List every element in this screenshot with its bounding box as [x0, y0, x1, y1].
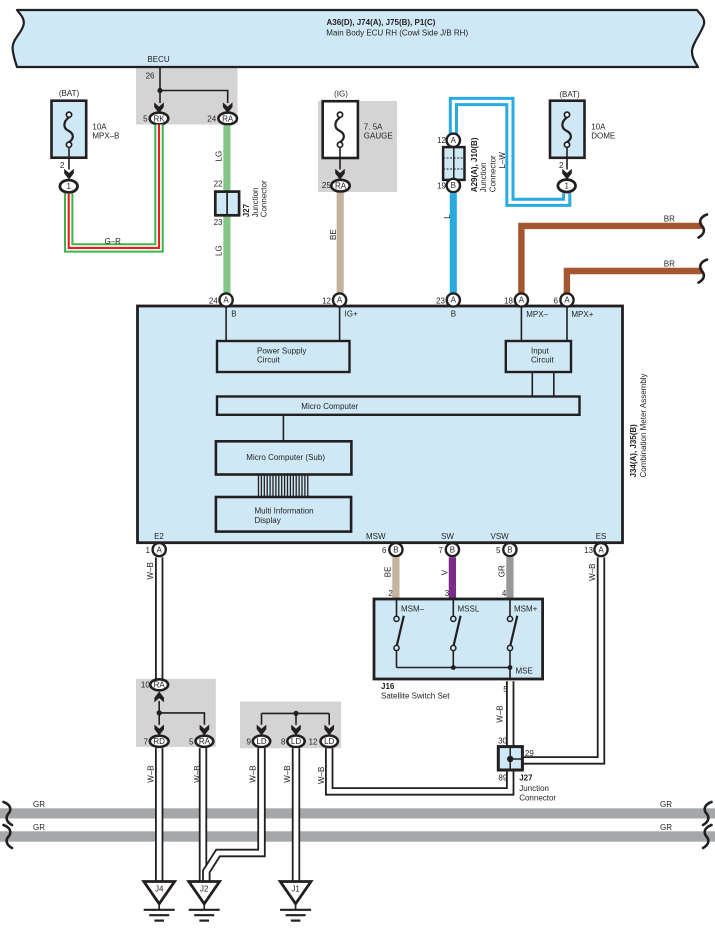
svg-text:7: 7 [144, 738, 149, 747]
svg-text:12: 12 [309, 738, 318, 747]
wires input circuit to micro computer [531, 372, 533, 397]
pin 5 B circle [503, 543, 516, 556]
break symbol bar1 right [703, 802, 712, 825]
svg-text:B: B [393, 545, 398, 554]
ground bus bar GR upper [0, 808, 715, 818]
pin 6 B circle [389, 543, 402, 556]
svg-text:7: 7 [439, 546, 444, 555]
gray shade box ground connector group left [136, 679, 216, 747]
svg-text:BE: BE [384, 567, 393, 578]
svg-text:A: A [337, 296, 343, 305]
svg-text:1: 1 [146, 546, 151, 555]
connector arrow into RK [154, 102, 164, 113]
connector arrow into 12 LD [324, 725, 334, 736]
connector arrow up from 10 RA [154, 692, 164, 703]
wire fuse DOME to pin 2 [566, 147, 568, 169]
svg-text:2: 2 [559, 161, 564, 170]
wire GR vsw to J16 [506, 557, 513, 599]
svg-text:B: B [451, 310, 456, 319]
connector LD 8 [287, 736, 304, 748]
fuse 7.5A GAUGE box [323, 101, 358, 158]
svg-text:MSM–: MSM– [401, 605, 425, 614]
svg-text:A36(D), J74(A), J75(B), P1(C): A36(D), J74(A), J75(B), P1(C) [327, 18, 436, 27]
junction dot BECU split [157, 88, 162, 93]
break symbol BR lower [699, 260, 708, 283]
svg-text:7. 5A: 7. 5A [364, 123, 383, 132]
connector RK [150, 113, 169, 125]
svg-text:(BAT): (BAT) [59, 89, 80, 98]
input circuit box [506, 341, 571, 372]
wire BR to MPX- [521, 226, 702, 294]
wire G-R from circle 1 to RK [69, 125, 159, 248]
wire pin6 to input circuit [566, 307, 568, 341]
svg-text:30: 30 [498, 736, 507, 745]
svg-text:3: 3 [445, 589, 450, 598]
svg-text:Combination Meter Assembly: Combination Meter Assembly [639, 373, 648, 477]
connector RD 7 [150, 736, 169, 747]
break symbol bar1 left [4, 802, 13, 825]
connector arrow into 1 dome [562, 169, 572, 180]
svg-text:MPX–B: MPX–B [92, 132, 119, 141]
svg-text:5: 5 [143, 115, 148, 124]
svg-text:MSM+: MSM+ [514, 605, 538, 614]
svg-text:W–B: W–B [248, 765, 257, 782]
junction connector A29 box [443, 147, 464, 180]
fuse MPX-B symbol [64, 117, 72, 142]
wire 10 RA branch [158, 701, 160, 725]
svg-text:Junction: Junction [479, 162, 488, 192]
connector RA gauge [331, 180, 349, 192]
wire fuse GAUGE to pin 25 [339, 147, 341, 169]
svg-text:A: A [451, 296, 457, 305]
connector arrow into 5 RA [200, 725, 210, 736]
svg-text:A: A [451, 136, 457, 145]
svg-text:MPX+: MPX+ [571, 310, 593, 319]
svg-text:W–B: W–B [146, 562, 155, 579]
svg-text:GR: GR [33, 823, 45, 832]
svg-text:1: 1 [66, 182, 71, 191]
connector group right: LD bus [262, 712, 330, 714]
svg-text:W–B: W–B [495, 705, 504, 722]
svg-text:(BAT): (BAT) [559, 90, 580, 99]
svg-text:RK: RK [153, 114, 165, 123]
wire BECU vertical from ribbon [159, 67, 161, 91]
svg-text:B: B [507, 545, 512, 554]
svg-text:Circuit: Circuit [531, 355, 554, 364]
svg-text:LG: LG [215, 151, 224, 162]
svg-text:RA: RA [154, 681, 166, 690]
pin 13 A circle [594, 543, 607, 556]
svg-text:B: B [451, 181, 456, 190]
connector RA 5 [196, 736, 214, 747]
satellite switch set J16 box [374, 599, 543, 679]
multi information display box [216, 497, 351, 532]
svg-text:RA: RA [335, 182, 347, 191]
svg-text:Multi Information: Multi Information [255, 507, 314, 516]
svg-text:A: A [157, 545, 163, 554]
junction connector J27 top box [215, 192, 239, 216]
svg-text:Satellite Switch Set: Satellite Switch Set [381, 692, 450, 701]
svg-text:1: 1 [564, 182, 569, 191]
connector arrow into 1 [64, 169, 74, 180]
break symbol bar2 left [4, 825, 13, 848]
ground J4 [144, 882, 175, 921]
wire LG from RA to meter pin 24 [223, 125, 230, 294]
wire BE from RA to meter pin 12 [337, 193, 344, 294]
svg-text:J4: J4 [155, 884, 164, 893]
svg-text:A: A [564, 296, 570, 305]
main body ECU ribbon [13, 10, 705, 67]
wire MSE inside J16 [509, 668, 511, 681]
svg-text:RA: RA [222, 114, 234, 123]
pin 1 A circle [153, 543, 166, 556]
svg-text:LD: LD [256, 737, 266, 746]
wire W-B 9 LD jog to ground J2 [206, 748, 261, 881]
svg-text:GR: GR [497, 565, 506, 577]
pin 12 A circle [333, 293, 346, 306]
svg-text:4: 4 [502, 589, 507, 598]
switch MSM+ [507, 600, 517, 668]
svg-text:9: 9 [246, 738, 251, 747]
wire BE msw to J16 [392, 557, 399, 599]
pin 18 A circle [515, 293, 528, 306]
fuse DOME symbol [562, 117, 570, 142]
svg-text:13: 13 [584, 546, 593, 555]
junction dot left group [157, 710, 162, 715]
micro computer sub box [216, 441, 352, 474]
pin 23 A circle [447, 293, 460, 306]
micro computer box [217, 397, 580, 415]
wire fuse to pin 2 [68, 147, 70, 169]
wire branch to 5 RA [159, 713, 204, 725]
svg-text:26: 26 [146, 72, 155, 81]
svg-text:8: 8 [281, 738, 286, 747]
svg-text:W–B: W–B [193, 765, 202, 782]
svg-text:(IG): (IG) [334, 89, 348, 98]
svg-text:10A: 10A [92, 123, 107, 132]
wire MSE bus [397, 667, 511, 669]
svg-text:DOME: DOME [591, 132, 615, 141]
ground J2 [189, 882, 220, 921]
svg-text:GAUGE: GAUGE [364, 132, 393, 141]
connector circle 1 dome [558, 180, 576, 192]
connector arrow into RA 25 [335, 169, 345, 180]
combination meter assembly box [138, 306, 623, 543]
junction dot J27 bottom [507, 756, 513, 762]
connector arrow into 9 LD [257, 725, 267, 736]
gray shade box ground connector group right [240, 702, 341, 749]
svg-text:W–B: W–B [147, 765, 156, 782]
svg-text:89: 89 [498, 774, 507, 783]
svg-text:5: 5 [496, 546, 501, 555]
svg-text:BR: BR [664, 214, 675, 223]
svg-text:Connector: Connector [489, 155, 498, 192]
svg-text:24: 24 [209, 297, 218, 306]
svg-text:L–W: L–W [498, 152, 507, 169]
pin A circle A29 [447, 134, 460, 147]
fuse GAUGE symbol [335, 117, 343, 142]
gray shade box IG fuse area [318, 101, 397, 192]
svg-text:BE: BE [329, 229, 338, 240]
wire W-B 7 RD to ground J4 [155, 748, 163, 881]
switch MSSL [451, 600, 461, 668]
svg-text:MSW: MSW [366, 532, 386, 541]
svg-text:ES: ES [596, 532, 607, 541]
junction dot right group [293, 711, 298, 716]
svg-text:RD: RD [153, 737, 165, 746]
svg-text:GR: GR [33, 800, 45, 809]
junction dot MSM+ bus [508, 665, 513, 670]
connector arrow into 7 RD [154, 725, 164, 736]
svg-text:19: 19 [437, 182, 446, 191]
connector RA 10 [150, 679, 168, 690]
svg-text:B: B [450, 545, 455, 554]
svg-text:A: A [223, 296, 229, 305]
svg-text:GR: GR [660, 823, 672, 832]
svg-text:A: A [598, 545, 604, 554]
svg-text:RA: RA [199, 737, 211, 746]
svg-text:A29(A), J10(B): A29(A), J10(B) [470, 137, 479, 192]
svg-text:Connector: Connector [259, 180, 268, 217]
svg-text:Connector: Connector [519, 794, 556, 803]
svg-text:Input: Input [531, 346, 550, 355]
fuse 10A MPX-B box [52, 101, 87, 158]
pin 24 A circle [220, 293, 233, 306]
svg-text:2: 2 [60, 161, 65, 170]
break symbol BR upper [699, 215, 708, 238]
wire pin18 to input circuit [520, 307, 522, 341]
svg-text:J34(A), J35(B): J34(A), J35(B) [629, 424, 638, 478]
wire W-B MSE to J27 pin 30 [506, 681, 514, 746]
wire L from pin B to meter pin 23 [450, 193, 457, 294]
ground J1 [280, 882, 311, 921]
svg-text:LD: LD [324, 737, 334, 746]
wire pin12 to power supply [339, 307, 341, 341]
connector arrow into 8 LD [291, 725, 301, 736]
gray shade box BECU connector area [136, 67, 238, 125]
connector LD 12 [321, 736, 338, 748]
svg-text:23: 23 [214, 218, 223, 227]
connector arrow into RA [223, 102, 233, 113]
svg-text:Junction: Junction [519, 784, 549, 793]
wire W-B J27 pin 89 to 12 LD [329, 748, 510, 791]
wire L-W from circle 1 dome to junction connector A [453, 102, 566, 203]
svg-text:5: 5 [189, 738, 194, 747]
svg-text:IG+: IG+ [345, 310, 358, 319]
junction dot MSSL bus [451, 665, 456, 670]
svg-text:W–B: W–B [588, 564, 597, 581]
wire micro computer to sub [282, 415, 284, 442]
connector circle 1 left [60, 180, 78, 192]
svg-text:6: 6 [554, 297, 559, 306]
ground bus bar GR lower [0, 831, 715, 841]
pin 6 A circle [560, 293, 573, 306]
svg-text:10A: 10A [591, 123, 606, 132]
svg-text:VSW: VSW [491, 532, 510, 541]
svg-text:SW: SW [441, 532, 454, 541]
connector LD 9 [253, 736, 270, 748]
svg-text:J16: J16 [381, 682, 395, 691]
svg-text:Display: Display [255, 516, 281, 525]
svg-text:22: 22 [214, 180, 223, 189]
svg-text:J27: J27 [519, 774, 533, 783]
wire W-B 5 RA to ground J2 [199, 748, 207, 881]
svg-text:B: B [231, 310, 236, 319]
wire W-B from E2 to ground group [155, 557, 163, 679]
svg-text:6: 6 [382, 546, 387, 555]
svg-text:LG: LG [215, 245, 224, 256]
wire pin24 to power supply [225, 307, 227, 341]
svg-text:25: 25 [322, 181, 331, 190]
svg-text:12: 12 [437, 136, 446, 145]
wire V sw to J16 [449, 557, 456, 599]
switch MSM- [394, 600, 404, 668]
break symbol bar2 right [703, 825, 712, 848]
svg-text:BECU: BECU [147, 55, 169, 64]
svg-text:2: 2 [388, 589, 393, 598]
display ribbon hatch [259, 475, 308, 498]
wire BECU branch to RA [160, 91, 228, 104]
svg-text:BR: BR [664, 259, 675, 268]
fuse 10A DOME box [550, 101, 585, 158]
svg-text:E2: E2 [154, 532, 164, 541]
junction connector J27 bottom box [498, 747, 522, 770]
svg-text:V: V [441, 569, 450, 575]
svg-text:10: 10 [141, 681, 150, 690]
svg-text:W–B: W–B [283, 765, 292, 782]
svg-text:GR: GR [660, 800, 672, 809]
svg-text:J2: J2 [200, 884, 209, 893]
pin B circle A29 [447, 179, 460, 192]
svg-text:5: 5 [503, 685, 508, 694]
power supply circuit box [217, 341, 350, 372]
wire BECU branch to RK [159, 91, 161, 104]
wire W-B 8 LD to ground J1 [292, 748, 300, 881]
svg-text:Circuit: Circuit [257, 355, 280, 364]
connector RA [218, 113, 237, 125]
pin 7 B circle [446, 543, 459, 556]
svg-text:Power Supply: Power Supply [257, 346, 306, 355]
wire BR to MPX+ [567, 271, 702, 294]
svg-text:Micro Computer (Sub): Micro Computer (Sub) [246, 453, 325, 462]
svg-text:LD: LD [291, 737, 301, 746]
svg-text:G–R: G–R [105, 237, 122, 246]
svg-text:Main Body ECU RH (Cowl Side J/: Main Body ECU RH (Cowl Side J/B RH) [326, 29, 468, 38]
svg-text:MPX–: MPX– [526, 310, 548, 319]
svg-text:MSE: MSE [516, 667, 533, 676]
svg-text:18: 18 [504, 297, 513, 306]
svg-text:23: 23 [436, 297, 445, 306]
svg-text:A: A [519, 296, 525, 305]
wire W-B from ES to J27 pin 29 [522, 557, 601, 760]
svg-text:L: L [443, 214, 452, 219]
svg-text:MSSL: MSSL [458, 605, 480, 614]
svg-text:J27: J27 [242, 203, 251, 217]
svg-text:J1: J1 [291, 884, 300, 893]
svg-text:W–B: W–B [317, 767, 326, 784]
svg-text:12: 12 [322, 297, 331, 306]
svg-text:29: 29 [525, 749, 534, 758]
svg-text:Micro Computer: Micro Computer [301, 402, 358, 411]
svg-text:24: 24 [207, 115, 216, 124]
